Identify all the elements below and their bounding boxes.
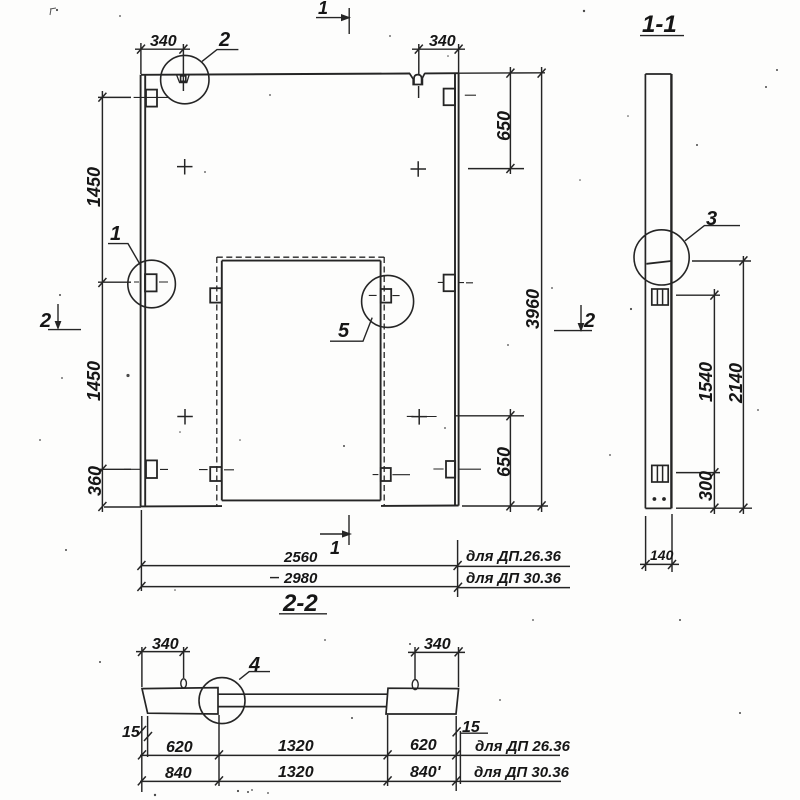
- svg-text:1: 1: [318, 0, 328, 18]
- svg-text:3960: 3960: [523, 289, 543, 329]
- svg-text:1450: 1450: [84, 361, 104, 401]
- svg-text:1-1: 1-1: [642, 11, 677, 38]
- svg-text:360: 360: [85, 466, 105, 496]
- svg-text:2: 2: [39, 310, 51, 332]
- svg-text:15: 15: [122, 724, 141, 741]
- svg-text:1: 1: [110, 223, 121, 245]
- svg-text:для ДП 30.36: для ДП 30.36: [466, 570, 562, 587]
- svg-text:1: 1: [330, 538, 340, 558]
- svg-text:340: 340: [152, 636, 179, 653]
- svg-text:для ДП.26.36: для ДП.26.36: [466, 548, 562, 565]
- svg-text:1320: 1320: [278, 738, 314, 755]
- svg-text:2980: 2980: [283, 570, 318, 587]
- svg-text:840: 840: [165, 765, 192, 782]
- svg-text:2: 2: [218, 29, 230, 51]
- svg-text:15: 15: [462, 719, 481, 736]
- svg-text:2140: 2140: [726, 363, 746, 404]
- svg-text:2: 2: [583, 310, 595, 332]
- svg-text:620: 620: [410, 737, 437, 754]
- svg-text:для ДП 30.36: для ДП 30.36: [474, 764, 570, 781]
- svg-text:1450: 1450: [84, 167, 104, 207]
- svg-text:2560: 2560: [283, 549, 318, 566]
- svg-text:1320: 1320: [278, 764, 314, 781]
- svg-text:340: 340: [424, 636, 451, 653]
- svg-text:для ДП 26.36: для ДП 26.36: [475, 738, 571, 755]
- svg-text:650: 650: [494, 111, 514, 141]
- svg-text:2-2: 2-2: [282, 590, 318, 617]
- svg-text:1540: 1540: [696, 362, 716, 402]
- svg-text:620: 620: [166, 739, 193, 756]
- svg-text:340: 340: [429, 33, 456, 50]
- svg-text:5: 5: [338, 320, 350, 342]
- svg-text:340: 340: [150, 33, 177, 50]
- svg-text:650: 650: [494, 447, 514, 477]
- svg-text:4: 4: [248, 654, 260, 676]
- svg-text:3: 3: [706, 208, 717, 230]
- svg-text:300: 300: [696, 471, 716, 501]
- svg-text:140: 140: [650, 547, 674, 563]
- svg-text:840': 840': [410, 764, 442, 781]
